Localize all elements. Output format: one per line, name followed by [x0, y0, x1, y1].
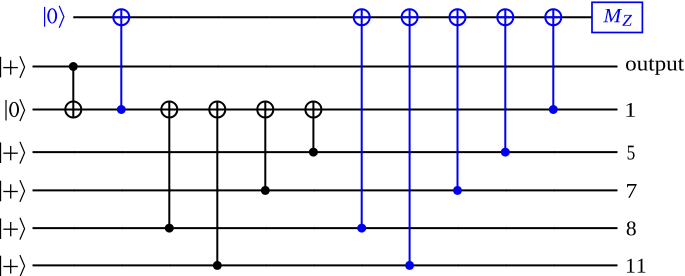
- ket bar | of |+> label, wire 5 (clipped at edge): [0, 142, 2, 163]
- CNOT B1 (blue; control wire 1, target q0): target XOR circle: [113, 9, 129, 25]
- wire q0 (measured ancilla, top): [73, 16, 592, 18]
- measurement label M (italic, blue): [603, 9, 622, 22]
- CNOT G1 (control output wire, target wire 1): control dot: [69, 62, 78, 71]
- CNOT B5 (blue; control wire 5, target q0): vertical control wire: [504, 9, 506, 152]
- CNOT G4 (control wire 7, target wire 1): target XOR circle: [257, 102, 273, 118]
- wire 11: [33, 264, 618, 266]
- wire 1: [33, 109, 618, 111]
- CNOT G5 (control wire 5, target wire 1): target XOR circle: [305, 102, 321, 118]
- measurement subscript Z (italic, blue): [622, 15, 632, 26]
- ket bar | of |+> label, wire 8 (clipped at edge): [0, 218, 2, 239]
- angle bracket > of |0> label, wire 1: [20, 99, 25, 121]
- ket bar | of |+> label, wire 7 (clipped at edge): [0, 181, 2, 202]
- angle bracket > of |+> label, output wire: [20, 56, 25, 78]
- CNOT B3 (blue; control wire 11, target q0): target XOR circle: [402, 9, 418, 25]
- measurement box M_Z on wire q0: [592, 2, 642, 32]
- CNOT B5 (blue; control wire 5, target q0): target cross bar: [497, 16, 513, 18]
- CNOT G4 (control wire 7, target wire 1): vertical control wire: [264, 102, 266, 191]
- plus sign of |+> label, output wire: [3, 60, 17, 74]
- CNOT B1 (blue; control wire 1, target q0): control dot: [117, 105, 126, 114]
- CNOT G2 (control wire 8, target wire 1): control dot: [165, 224, 174, 233]
- CNOT B3 (blue; control wire 11, target q0): control dot: [405, 261, 414, 270]
- CNOT B6 (blue; control wire 1, target q0): control dot: [549, 105, 558, 114]
- CNOT B6 (blue; control wire 1, target q0): vertical control wire: [552, 9, 554, 109]
- right-hand label: 5: [628, 146, 635, 160]
- angle bracket > of |+> label, wire 11: [20, 255, 25, 276]
- right-hand label: 1: [626, 103, 635, 117]
- CNOT B2 (blue; control wire 8, target q0): control dot: [357, 224, 366, 233]
- CNOT B6 (blue; control wire 1, target q0): target XOR circle: [545, 9, 561, 25]
- CNOT B1 (blue; control wire 1, target q0): vertical control wire: [120, 9, 122, 109]
- CNOT B2 (blue; control wire 8, target q0): target XOR circle: [354, 9, 370, 25]
- CNOT B4 (blue; control wire 7, target q0): control dot: [453, 186, 462, 195]
- wire output: [33, 66, 618, 68]
- CNOT B1 (blue; control wire 1, target q0): target cross bar: [113, 16, 129, 18]
- CNOT G5 (control wire 5, target wire 1): control dot: [309, 148, 318, 157]
- wire segment joints (faint column seams on every wire): [74, 16, 554, 267]
- CNOT G2 (control wire 8, target wire 1): vertical control wire: [168, 102, 170, 229]
- CNOT G1 (control output wire, target wire 1): vertical control wire: [72, 67, 74, 118]
- CNOT G3 (control wire 11, target wire 1): target XOR circle: [209, 102, 225, 118]
- right-hand label: 7: [627, 184, 637, 198]
- right-hand label: output: [626, 59, 684, 75]
- right-hand label: 8: [627, 221, 636, 235]
- wire 5: [33, 151, 618, 153]
- right-hand label: 11: [627, 259, 645, 273]
- wire 7: [33, 189, 618, 191]
- CNOT B6 (blue; control wire 1, target q0): target cross bar: [545, 16, 561, 18]
- wire 8: [33, 227, 618, 229]
- ket bar | of |+> label, wire 11 (clipped at edge): [0, 256, 2, 276]
- CNOT B2 (blue; control wire 8, target q0): target cross bar: [354, 16, 370, 18]
- CNOT G2 (control wire 8, target wire 1): target XOR circle: [161, 102, 177, 118]
- CNOT B4 (blue; control wire 7, target q0): vertical control wire: [457, 9, 459, 190]
- angle bracket > of |+> label, wire 7: [20, 180, 25, 202]
- plus sign of |+> label, wire 11: [3, 259, 17, 273]
- CNOT B3 (blue; control wire 11, target q0): target cross bar: [402, 16, 418, 18]
- angle bracket > of |+> label, wire 5: [20, 142, 25, 164]
- ket bar | of |0> label, wire q0 (blue): [44, 7, 46, 27]
- CNOT B3 (blue; control wire 11, target q0): vertical control wire: [409, 9, 411, 265]
- ket bar | of |0> label, wire 1: [5, 100, 7, 121]
- digit 0 of |0> label, wire 1: [9, 102, 19, 117]
- CNOT B4 (blue; control wire 7, target q0): target XOR circle: [450, 9, 466, 25]
- plus sign of |+> label, wire 8: [3, 222, 17, 236]
- CNOT G3 (control wire 11, target wire 1): vertical control wire: [216, 102, 218, 266]
- CNOT G3 (control wire 11, target wire 1): control dot: [213, 261, 222, 270]
- angle bracket > of |+> label, wire 8: [20, 218, 25, 240]
- plus sign of |+> label, wire 5: [3, 146, 17, 160]
- digit 0 of |0> label, wire q0 (blue): [47, 8, 57, 23]
- CNOT G1 (control output wire, target wire 1): target XOR circle: [65, 102, 81, 118]
- CNOT B5 (blue; control wire 5, target q0): target XOR circle: [497, 9, 513, 25]
- CNOT B5 (blue; control wire 5, target q0): control dot: [501, 148, 510, 157]
- plus sign of |+> label, wire 7: [3, 184, 17, 198]
- CNOT G5 (control wire 5, target wire 1): vertical control wire: [312, 102, 314, 153]
- CNOT B2 (blue; control wire 8, target q0): vertical control wire: [361, 9, 363, 228]
- angle bracket > of |0> label, wire q0 (blue): [59, 6, 64, 28]
- ket bar | of |+> label, output wire (clipped at edge): [0, 57, 2, 78]
- CNOT G4 (control wire 7, target wire 1): control dot: [261, 186, 270, 195]
- CNOT B4 (blue; control wire 7, target q0): target cross bar: [450, 16, 466, 18]
